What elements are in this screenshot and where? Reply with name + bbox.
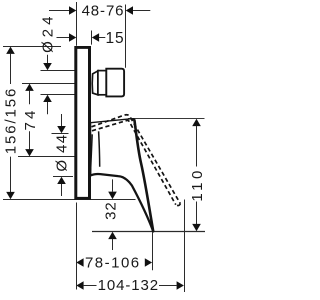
dimension 74 [18, 84, 75, 157]
handle hub edge left [91, 134, 93, 170]
wire: tail below arrow [47, 102, 49, 114]
wire: leader above [61, 114, 63, 127]
handle lever body (closed position) [91, 119, 154, 232]
wire: tail below [112, 239, 114, 250]
wire: wall extension line top (x=76.5) [76, 2, 78, 46]
arrow down-pointing [57, 126, 66, 133]
arrow left-pointing [76, 281, 83, 290]
arrow down-pointing [192, 224, 201, 231]
dimension 32 [102, 179, 119, 250]
handle front edge (thick) [133, 119, 153, 231]
spout cone [92, 71, 98, 95]
wire: handle hub top extension [52, 133, 69, 135]
wire: tail below [61, 184, 63, 196]
wire: leader above [112, 179, 114, 191]
wire: plate front extension line [91, 31, 93, 45]
wire: spout top extension [41, 70, 75, 72]
svg-text:15: 15 [105, 30, 124, 47]
wire: left leader [57, 37, 70, 39]
arrow left-pointing [76, 258, 83, 267]
wire: stub after arrow [99, 37, 105, 39]
arrow right-pointing [177, 281, 184, 290]
wire: dim line upper segment [196, 126, 198, 167]
arrow down-pointing [43, 63, 52, 70]
svg-text:74: 74 [22, 107, 39, 130]
dimension Ø24 [39, 13, 74, 115]
wire: dashed lever tip extension line [184, 200, 186, 293]
escutcheon plate (side view) [74, 46, 91, 200]
svg-text:48-76: 48-76 [82, 2, 125, 19]
dashed lever tip arc [176, 204, 181, 206]
wire: plate-top extension line (y=46.5) [3, 46, 61, 48]
arrow down-pointing [25, 149, 34, 156]
dashed lever bottom edge [92, 120, 176, 204]
arrow right-pointing [145, 258, 152, 267]
wire: leader from label [47, 55, 49, 64]
arrow down-pointing [6, 192, 15, 199]
svg-text:78-106: 78-106 [85, 254, 141, 271]
wire: right shaft [159, 285, 177, 287]
wire: dim line lower segment [29, 131, 31, 149]
spout end cap [106, 69, 124, 97]
dimension 104-132 [76, 200, 184, 295]
arrow up-pointing [43, 95, 52, 102]
svg-text:Ø 44: Ø 44 [54, 134, 71, 172]
dimension 78-106 [76, 232, 152, 271]
svg-text:32: 32 [102, 201, 119, 220]
wire: spout axis extension [22, 83, 75, 85]
handle hub edge right [99, 131, 100, 167]
wire: lever top edge + 110 top extension (one straight line) [128, 118, 205, 120]
svg-text:Ø24: Ø24 [39, 13, 56, 53]
arrow right-pointing [69, 6, 76, 15]
wire: dim line lower segment [10, 157, 12, 192]
wire: bottom reference line (handle tip level) [92, 231, 205, 233]
wire: dim line upper segment [10, 54, 12, 85]
wire: right leader [133, 10, 150, 12]
dimension 15 [57, 30, 125, 47]
dimension 156/156 [3, 47, 20, 200]
arrow left-pointing [126, 6, 133, 15]
svg-text:110: 110 [189, 167, 206, 201]
svg-text:156/156: 156/156 [3, 87, 20, 155]
spout cylinder Ø24 [98, 71, 106, 95]
svg-text:104-132: 104-132 [98, 277, 159, 294]
arrow up-pointing [108, 232, 117, 239]
wire: dim line lower segment [196, 202, 198, 225]
arrow left-pointing [92, 33, 99, 42]
handle back+bottom edge (thick) [91, 174, 153, 231]
dimension Ø44 [52, 114, 74, 196]
wire: spout front extension line (x=125.5) [125, 5, 127, 68]
arrow up-pointing [6, 47, 15, 54]
arrow up-pointing [192, 119, 201, 126]
dimension 110 [189, 119, 206, 231]
wire: valve axis extension [18, 156, 75, 158]
arrow right-pointing [69, 33, 76, 42]
wire: handle tip extension line [152, 232, 154, 270]
wire: left shaft [84, 285, 97, 287]
wire: plate-bottom extension line (y=199.5) [3, 199, 136, 201]
arrow up-pointing [25, 84, 34, 91]
dashed lever (open position) top edge [92, 115, 181, 204]
arrow up-pointing [57, 177, 66, 184]
wire: spout bottom extension [41, 94, 75, 96]
arrow down-pointing [108, 192, 117, 200]
dimension 48-76 top [49, 2, 150, 19]
wire: handle hub bottom extension [53, 176, 73, 178]
wire: dim line upper segment [29, 91, 31, 105]
wire: wall extension line bottom (x=76.5) [76, 203, 78, 290]
wire: left leader [49, 10, 69, 12]
